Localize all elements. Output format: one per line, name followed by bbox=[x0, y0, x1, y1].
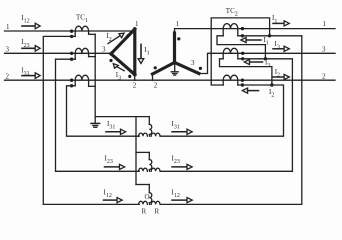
transformer delta winding (primary) bbox=[111, 29, 135, 75]
current arrow I2 (delta top edge) bbox=[106, 32, 124, 43]
wire TC1-1 secondary to relay I12 bbox=[43, 36, 139, 204]
polarity dot delta near 3 bbox=[109, 59, 112, 62]
transformer wye winding (secondary) bbox=[153, 33, 200, 74]
polarity dot TC2-3 secondary bbox=[241, 57, 244, 60]
wire TC2-2 secondary to relay I31 bbox=[161, 85, 284, 136]
wire TC2-2 return loop bbox=[211, 18, 269, 85]
svg-text:I23: I23 bbox=[105, 154, 113, 165]
CT TC1 phase-1 winding bbox=[75, 26, 95, 36]
polarity dot wye-3 bbox=[199, 67, 202, 70]
polarity dot TC2-2 secondary bbox=[241, 83, 244, 86]
return arrow I1 bbox=[241, 36, 269, 47]
wire TC2-1 secondary left stub bbox=[217, 36, 265, 59]
current arrow I1 (between delta and wye) bbox=[138, 44, 149, 63]
svg-text:2: 2 bbox=[133, 82, 137, 90]
polarity dot TC1-3 secondary bbox=[70, 58, 73, 61]
svg-text:3: 3 bbox=[191, 59, 195, 67]
junction dot ret1-top3 bbox=[264, 57, 267, 60]
forward arrow I1 bbox=[272, 14, 289, 26]
svg-text:1: 1 bbox=[135, 20, 139, 28]
svg-text:R: R bbox=[142, 208, 147, 216]
svg-text:TC2: TC2 bbox=[226, 7, 238, 18]
wire line 1 left bbox=[5, 30, 135, 32]
svg-text:I23: I23 bbox=[172, 154, 180, 165]
polarity dot TC1-2 secondary bbox=[70, 84, 73, 87]
current arrow I31 bbox=[21, 66, 40, 78]
polarity dot TC1-1 primary bbox=[70, 30, 73, 33]
wire TC2 primary 1 right bbox=[223, 28, 335, 30]
svg-text:TC1: TC1 bbox=[76, 14, 88, 25]
wire TC1 common return bbox=[94, 34, 96, 116]
polarity dot TC2-1 secondary bbox=[241, 34, 244, 37]
svg-text:3: 3 bbox=[102, 46, 106, 54]
wire relay common vertical bbox=[135, 117, 137, 185]
CT TC2 phase-1 winding bbox=[223, 24, 238, 36]
relay winding (differential) row I12 bbox=[136, 185, 152, 205]
polarity dot delta near 2 bbox=[128, 75, 131, 78]
svg-text:1: 1 bbox=[323, 20, 327, 28]
relay restraint coils row I23 bbox=[139, 168, 160, 171]
CT TC1 phase-3 winding bbox=[75, 48, 95, 59]
wire wye-2 stub bbox=[152, 74, 154, 80]
svg-text:I31: I31 bbox=[107, 120, 115, 131]
polarity dot wye-2 bbox=[154, 66, 157, 69]
return arrow I2 bbox=[242, 88, 274, 99]
forward arrow I2 bbox=[273, 68, 289, 80]
svg-text:O: O bbox=[145, 193, 150, 201]
wire line 3 left bbox=[5, 52, 112, 54]
CT TC2 phase-3 winding bbox=[223, 48, 238, 59]
wire line 2 (full width) bbox=[5, 79, 336, 81]
polarity dot TC2-1 primary bbox=[241, 27, 244, 30]
svg-text:2: 2 bbox=[6, 72, 10, 80]
polarity dot wye-1 bbox=[177, 37, 180, 40]
return arrow I3 bbox=[244, 58, 270, 69]
wire TC2-3 secondary left stub bbox=[220, 59, 272, 85]
current arrow I31 left bbox=[106, 120, 126, 135]
polarity dot TC1-1 secondary bbox=[70, 35, 73, 38]
svg-text:I12: I12 bbox=[104, 188, 112, 199]
svg-text:1: 1 bbox=[6, 23, 10, 31]
polarity dot TC2-3 primary bbox=[241, 52, 244, 55]
current arrow I23 bbox=[21, 38, 40, 51]
CT TC2 phase-2 winding bbox=[223, 75, 238, 85]
forward arrow I3 bbox=[273, 40, 289, 52]
polarity dot delta near 1 bbox=[126, 34, 129, 37]
svg-text:I23: I23 bbox=[21, 38, 29, 49]
wire TC2-3 secondary to relay I23 bbox=[161, 59, 292, 172]
svg-text:I31: I31 bbox=[172, 120, 180, 131]
current arrow I23 right bbox=[172, 154, 193, 169]
ground TC1 common bbox=[91, 117, 100, 128]
current arrow I12 right bbox=[172, 188, 193, 202]
ground wye neutral bbox=[171, 63, 178, 76]
svg-text:3: 3 bbox=[6, 46, 10, 54]
wire TC1-2 secondary to relay I31 bbox=[67, 86, 140, 136]
current arrow I12 bbox=[21, 14, 40, 29]
current arrow I12 left bbox=[104, 188, 123, 202]
relay restraint coils row I12 bbox=[139, 201, 160, 204]
svg-text:I1: I1 bbox=[144, 46, 149, 57]
junction dot ret2-top1 bbox=[268, 34, 271, 37]
polarity dot TC1-2 primary bbox=[70, 79, 73, 82]
relay winding (differential) row I23 bbox=[136, 152, 152, 171]
wire wye-3 to TC2 bbox=[199, 53, 223, 73]
svg-text:R: R bbox=[155, 208, 160, 216]
svg-text:3: 3 bbox=[322, 46, 326, 54]
svg-text:1: 1 bbox=[176, 20, 180, 28]
wire delta-2 stub bbox=[134, 75, 136, 81]
polarity dot TC2-2 primary bbox=[241, 79, 244, 82]
current arrow I31 right bbox=[172, 120, 193, 135]
svg-text:2: 2 bbox=[154, 82, 158, 90]
svg-text:I12: I12 bbox=[172, 188, 180, 199]
svg-text:I12: I12 bbox=[21, 14, 29, 25]
relay winding (differential) row I31 bbox=[149, 117, 152, 137]
current arrow I23 left bbox=[105, 154, 125, 169]
wire TC1-3 secondary to relay I23 bbox=[56, 59, 140, 171]
wire TC2 primary 3 right bbox=[223, 52, 335, 54]
wire wye-1 to TC2 bbox=[175, 29, 224, 33]
polarity dot TC1-3 primary bbox=[70, 52, 73, 55]
wire TC2-1 secondary to relay I12 bbox=[161, 36, 302, 205]
svg-text:I2: I2 bbox=[269, 88, 274, 99]
CT TC1 phase-2 winding bbox=[75, 75, 95, 86]
svg-text:2: 2 bbox=[322, 72, 326, 80]
junction dot ret3-top2 bbox=[270, 83, 273, 86]
current arrow I3 (delta bottom edge) bbox=[113, 64, 124, 82]
svg-text:I3: I3 bbox=[265, 58, 270, 69]
wire relay common feed bbox=[95, 116, 149, 118]
relay restraint coils row I31 bbox=[139, 133, 160, 136]
